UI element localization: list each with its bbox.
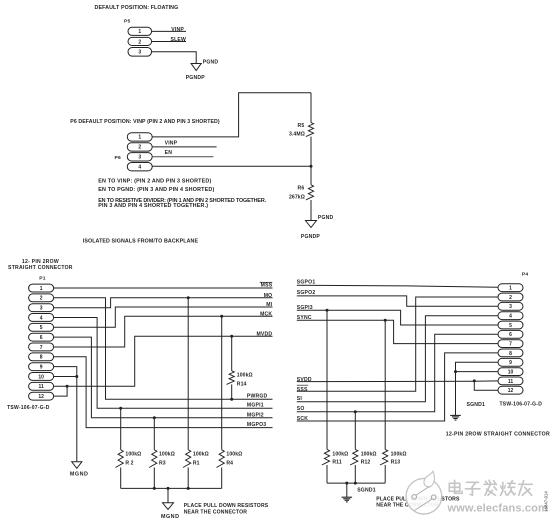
svg-text:P6: P6 (115, 155, 121, 161)
connector P1 pin 11 (29, 382, 54, 390)
wire bus to SGND1 (346, 483, 348, 497)
wire from P1 pin 4 to MGPI1 (54, 318, 273, 409)
resistor R3 wire top (153, 418, 155, 450)
svg-text:TSW-106-07-G-D: TSW-106-07-G-D (7, 405, 50, 411)
wire from P1 pin 12 (54, 386, 68, 396)
connector P5 pin 2 (128, 37, 152, 45)
resistor R12 wire top (354, 412, 356, 450)
svg-text:5: 5 (40, 325, 43, 331)
resistor R11 (322, 449, 330, 465)
svg-text:PGNDP: PGNDP (186, 75, 206, 81)
resistor R11 wire bottom (326, 465, 328, 483)
node R2 to MGPI1 junction (119, 407, 122, 410)
node P1 pin 10 junction (75, 375, 78, 378)
svg-text:3: 3 (138, 50, 141, 56)
wire from P1 pin 2 to PWRGD (54, 298, 273, 400)
svg-text:R5: R5 (297, 123, 304, 129)
connector P6 pin 4 (127, 163, 152, 171)
svg-text:R 2: R 2 (125, 461, 133, 467)
wire R6 to PGND (310, 200, 312, 221)
wire from P1 pin 11 to MVDD (54, 336, 273, 386)
connector P1 pin 10 (29, 373, 54, 381)
svg-text:4: 4 (509, 314, 512, 320)
svg-text:11: 11 (508, 379, 514, 385)
resistor R6 wire top (310, 166, 312, 185)
node R4 to MCK junction (220, 315, 223, 318)
svg-text:7: 7 (40, 345, 43, 351)
svg-text:R3: R3 (159, 461, 166, 467)
resistor R2 (116, 450, 124, 468)
connector P4 pin 3 (498, 302, 523, 310)
svg-text:2: 2 (138, 39, 141, 45)
wire SSS to P4 pin 2 (297, 297, 498, 391)
svg-text:PGNDP: PGNDP (301, 234, 321, 240)
resistor R6 (306, 185, 314, 200)
svg-text:3: 3 (509, 304, 512, 310)
wire MSS from P1 pin 1 (54, 287, 273, 289)
svg-text:100kΩ: 100kΩ (193, 451, 209, 457)
svg-text:2: 2 (138, 145, 141, 151)
svg-text:3: 3 (40, 306, 43, 312)
connector P1 pin 8 (29, 353, 54, 361)
svg-text:100kΩ: 100kΩ (125, 451, 141, 457)
svg-text:2: 2 (40, 296, 43, 302)
svg-text:P6 DEFAULT POSITION: VINP (PIN: P6 DEFAULT POSITION: VINP (PIN 2 AND PIN… (70, 119, 220, 125)
connector P5 pin 3 (128, 48, 152, 57)
ground SGND1 (P4) (450, 414, 461, 416)
wire from P1 pin 6 to MGPI2 (54, 337, 273, 418)
resistor R12 (350, 449, 358, 465)
node R1 to MO junction (187, 296, 190, 299)
wire from P1 pin 7 to MCK (54, 316, 273, 347)
connector P4 pin 5 (498, 321, 523, 329)
node R14 to MVDD junction (230, 335, 233, 338)
connector P6 pin 1 (127, 133, 152, 141)
wire from P1 pin 9 to MGND (54, 367, 77, 462)
wire from P1 pin 5 to MI (54, 307, 273, 327)
svg-text:www.elecfans.com: www.elecfans.com (447, 502, 548, 514)
connector P4 pin 10 (498, 368, 523, 376)
svg-text:5: 5 (509, 323, 512, 329)
wire from P4 pin 12 (474, 381, 498, 390)
wire SO to P4 pin 6 (297, 334, 498, 411)
resistor R2 wire top (120, 408, 122, 450)
ground PGND (P6) (306, 221, 317, 228)
wire MGND bus (121, 487, 222, 489)
svg-text:NEAR THE CONNECTOR: NEAR THE CONNECTOR (184, 509, 248, 515)
svg-text:SLEW: SLEW (170, 37, 186, 43)
wire EN from P6 pin 3 (152, 156, 213, 158)
wire SGPO1 to P4 pin 1 (297, 285, 498, 287)
svg-text:8: 8 (40, 355, 43, 361)
wire VINP from P5 pin 1 (152, 30, 186, 32)
node bus-R1 junction (187, 487, 190, 490)
svg-text:MGND: MGND (70, 472, 88, 478)
svg-text:MSS: MSS (261, 282, 273, 288)
node R14 to PWRGD junction (230, 398, 233, 401)
resistor R14 (227, 371, 235, 385)
svg-text:VINP: VINP (165, 140, 178, 146)
svg-text:2: 2 (509, 295, 512, 301)
ground SGND1 (pulldowns) (342, 496, 353, 498)
svg-text:SGPO1: SGPO1 (297, 280, 316, 286)
svg-text:SGPO2: SGPO2 (297, 290, 316, 296)
svg-text:MGPI1: MGPI1 (247, 403, 264, 409)
svg-text:100kΩ: 100kΩ (391, 451, 407, 457)
resistor R3 (149, 450, 157, 468)
svg-text:MGND: MGND (161, 514, 179, 520)
node bus-stem junction (right) (345, 482, 348, 485)
svg-text:DEFAULT POSITION: FLOATING: DEFAULT POSITION: FLOATING (95, 5, 179, 11)
resistor R1 (183, 450, 191, 468)
svg-text:12-PIN 2ROW STRAIGHT CONNECTOR: 12-PIN 2ROW STRAIGHT CONNECTOR (446, 431, 550, 437)
connector P1 pin 2 (29, 294, 54, 302)
wire from P6 pin 1 up to R5 (152, 93, 311, 137)
connector P4 pin 8 (498, 349, 523, 357)
node P1 pin 12 junction (66, 385, 69, 388)
svg-text:7: 7 (509, 342, 512, 348)
node R13 to SYNC junction (384, 319, 387, 322)
connector P5 pin 1 (128, 27, 152, 35)
svg-text:R6: R6 (297, 186, 304, 192)
resistor R12 wire bottom (354, 465, 356, 483)
svg-text:100kΩ: 100kΩ (226, 451, 242, 457)
svg-text:100kΩ: 100kΩ (237, 373, 253, 379)
connector P6 pin 2 (127, 143, 152, 151)
svg-text:SSS: SSS (297, 387, 308, 393)
svg-text:MI: MI (266, 302, 272, 308)
svg-text:3.4MΩ: 3.4MΩ (289, 132, 305, 138)
svg-text:9: 9 (40, 365, 43, 371)
resistor R1 wire bottom (187, 468, 189, 489)
svg-text:4: 4 (40, 315, 43, 321)
wire from P5 pin 3 to PGND (152, 52, 197, 64)
node P4 pin 12 junction (473, 379, 476, 382)
ground MGND (P1) (72, 462, 82, 469)
svg-text:100kΩ: 100kΩ (361, 451, 377, 457)
svg-text:10: 10 (508, 369, 514, 375)
wire from P6 pin 4 to divider node (152, 165, 311, 167)
ground MGND (pulldowns) (163, 503, 174, 510)
wire from P1 pin 10 (54, 376, 77, 378)
svg-text:6: 6 (40, 335, 43, 341)
node R3 to MGPI2 junction (153, 416, 156, 419)
svg-text:R12: R12 (361, 460, 371, 466)
connector P1 pin 4 (29, 314, 54, 322)
connector P1 pin 12 (29, 392, 54, 400)
connector P1 pin 1 (29, 284, 54, 292)
wire SYNC to P4 pin 7 (297, 320, 498, 343)
svg-text:PLACE PULL DOWN RESISTORS: PLACE PULL DOWN RESISTORS (184, 503, 269, 509)
svg-text:9: 9 (509, 360, 512, 366)
svg-text:R1: R1 (193, 461, 200, 467)
connector P6 pin 3 (127, 153, 152, 161)
connector P1 pin 6 (29, 333, 54, 341)
resistor R5 (306, 123, 314, 137)
svg-text:MO: MO (264, 293, 273, 299)
svg-text:1: 1 (40, 286, 43, 292)
connector P1 pin 5 (29, 323, 54, 331)
svg-text:12: 12 (508, 388, 514, 394)
svg-text:ISOLATED SIGNALS FROM/TO BACKP: ISOLATED SIGNALS FROM/TO BACKPLANE (83, 239, 199, 245)
wire SCK to P4 pin 8 (297, 353, 498, 421)
wire from P4 pin 10 (456, 371, 499, 373)
node R12 to SO junction (354, 410, 357, 413)
svg-text:100kΩ: 100kΩ (159, 451, 175, 457)
svg-text:TSW-106-07-G-D: TSW-106-07-G-D (500, 402, 543, 408)
resistor R4 wire top (221, 316, 223, 450)
wire VINP from P6 pin 2 (152, 146, 216, 148)
resistor R4 wire bottom (221, 468, 223, 489)
svg-text:R11: R11 (332, 460, 341, 466)
svg-text:EN TO PGND: (PIN 3 AND PIN 4 S: EN TO PGND: (PIN 3 AND PIN 4 SHORTED) (98, 187, 214, 193)
connector P1 pin 3 (29, 304, 54, 312)
svg-text:PGND: PGND (203, 60, 219, 66)
resistor R1 wire top (187, 298, 189, 450)
node divider junction (310, 165, 313, 168)
resistor R11 wire top (326, 310, 328, 449)
connector P4 pin 1 (498, 284, 523, 292)
connector P1 pin 9 (29, 363, 54, 371)
svg-text:MCK: MCK (260, 312, 272, 318)
watermark CJK text (449, 483, 460, 491)
wire SLEW from P5 pin 2 (152, 41, 186, 43)
wire SGPI3 to P4 pin 5 (297, 310, 498, 325)
svg-text:SI: SI (297, 396, 303, 402)
svg-text:100kΩ: 100kΩ (332, 451, 348, 457)
svg-text:MGPI2: MGPI2 (247, 413, 264, 419)
svg-text:6: 6 (509, 332, 512, 338)
svg-text:10: 10 (38, 374, 44, 380)
svg-text:SO: SO (297, 406, 305, 412)
node bus-R3 junction (153, 487, 156, 490)
resistor R2 wire bottom (120, 468, 122, 489)
wire SVDD to P4 pin 11 (297, 380, 498, 383)
svg-text:SGND1: SGND1 (357, 488, 376, 494)
wire from P1 pin 3 to MO (54, 298, 273, 308)
wire from P4 pin 9 to SGND1 (456, 362, 499, 415)
node P4 pin 10 junction (454, 370, 457, 373)
svg-text:P1: P1 (39, 276, 45, 282)
resistor R4 (217, 450, 225, 468)
svg-text:1: 1 (138, 29, 141, 35)
wire from P1 pin 8 to MGPO3 (54, 357, 273, 428)
svg-text:EN: EN (165, 150, 173, 156)
wire SI to P4 pin 4 (297, 316, 498, 402)
connector P1 pin 7 (29, 343, 54, 351)
resistor R14 wire bottom (231, 384, 233, 399)
connector P4 pin 2 (498, 293, 523, 301)
svg-text:R14: R14 (237, 381, 247, 387)
connector P4 pin 6 (498, 330, 523, 338)
svg-text:MGPO3: MGPO3 (247, 422, 266, 428)
svg-text:VINP: VINP (171, 27, 184, 33)
svg-text:P4: P4 (522, 271, 528, 277)
resistor R14 wire top (231, 336, 233, 371)
node bus-stem junction (167, 487, 170, 490)
resistor R5 wire bottom (310, 137, 312, 167)
svg-text:PIN 3 AND PIN 4 SHORTED TOGETH: PIN 3 AND PIN 4 SHORTED TOGETHER.) (98, 203, 208, 209)
svg-text:4: 4 (138, 165, 141, 171)
svg-text:P5: P5 (124, 19, 130, 25)
svg-text:11: 11 (38, 384, 44, 390)
connector P4 pin 11 (498, 377, 523, 385)
node R11 to SGPI3 junction (326, 309, 329, 312)
ground PGND (P5) (191, 64, 201, 71)
svg-text:EN TO VINP: (PIN 2 AND PIN 3 S: EN TO VINP: (PIN 2 AND PIN 3 SHORTED) (98, 178, 211, 184)
svg-text:1: 1 (509, 286, 512, 292)
connector P4 pin 7 (498, 340, 523, 348)
svg-text:R13: R13 (391, 460, 401, 466)
wire SGPO2 to P4 pin 3 (297, 296, 498, 306)
net label MSS overline (260, 281, 273, 283)
resistor R5 wire top (310, 93, 312, 123)
resistor R13 wire bottom (384, 465, 386, 483)
svg-text:267kΩ: 267kΩ (289, 195, 305, 201)
resistor R3 wire bottom (153, 468, 155, 489)
svg-text:STRAIGHT CONNECTOR: STRAIGHT CONNECTOR (8, 265, 73, 271)
svg-text:1: 1 (138, 135, 141, 141)
resistor R13 wire top (384, 320, 386, 449)
connector P4 pin 12 (498, 386, 523, 394)
wire SGND1 bus (327, 482, 385, 484)
net label SSS overline (297, 384, 308, 386)
resistor R13 (380, 449, 388, 465)
svg-text:MVDD: MVDD (256, 331, 272, 337)
node bus-R12 junction (354, 482, 357, 485)
wire bus to MGND (167, 488, 169, 502)
svg-text:SGND1: SGND1 (467, 402, 486, 408)
svg-text:16847-014: 16847-014 (543, 491, 548, 512)
svg-text:PWRGD: PWRGD (247, 394, 268, 400)
svg-text:8: 8 (509, 351, 512, 357)
connector P4 pin 9 (498, 358, 523, 366)
connector P4 pin 4 (498, 312, 523, 320)
svg-text:3: 3 (138, 155, 141, 161)
svg-text:R4: R4 (226, 461, 233, 467)
watermark logo (406, 478, 442, 514)
svg-text:12: 12 (38, 394, 44, 400)
svg-text:PGND: PGND (318, 215, 334, 221)
